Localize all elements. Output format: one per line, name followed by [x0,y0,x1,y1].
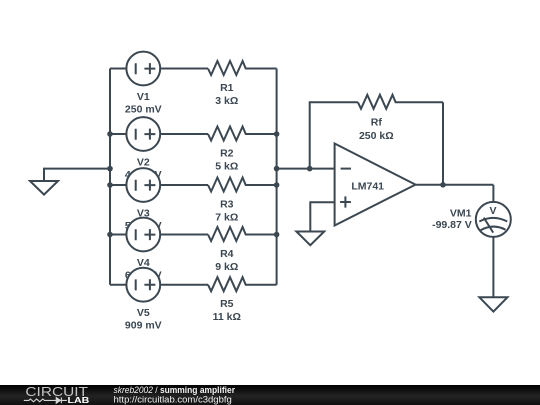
svg-text:http://circuitlab.com/c3dgbfg: http://circuitlab.com/c3dgbfg [114,395,232,405]
svg-text:7 kΩ: 7 kΩ [215,212,238,224]
resistor R1 [208,61,277,107]
resistor R4 [208,227,277,273]
voltage source V3 [110,168,208,232]
node: right bus / R3 junction [274,182,280,188]
svg-text:V5: V5 [137,307,150,319]
svg-text:-99.87 V: -99.87 V [432,219,472,231]
node: right bus / inverting-input tap [274,166,280,172]
node: left bus / V3 junction [107,182,113,188]
svg-text:R3: R3 [220,199,234,211]
svg-text:V2: V2 [137,157,150,169]
ground (left, GND) [30,181,58,195]
voltmeter VM1 [432,202,511,237]
voltage source V1 [110,52,208,116]
footer bar [0,385,540,405]
wire: ground stub from left bus [44,169,110,181]
wire: non-inverting input to ground [310,202,334,231]
svg-text:3 kΩ: 3 kΩ [215,95,238,107]
node: output / feedback junction [440,182,446,188]
svg-text:9 kΩ: 9 kΩ [215,261,238,273]
node: left bus / V2 junction [107,131,113,137]
wire: voltmeter top lead [492,185,494,202]
node: left bus / V4 junction [107,232,113,238]
node: right bus / R2 junction [274,131,280,137]
wire: feedback left riser [310,102,358,168]
svg-text:R2: R2 [220,148,234,160]
voltage source V2 [110,117,208,181]
resistor R5 [208,277,277,323]
wire: right bus [276,69,278,285]
svg-text:LAB: LAB [68,395,90,405]
resistor R2 [208,127,277,173]
svg-text:250 kΩ: 250 kΩ [359,130,394,142]
resistor Rf [358,95,443,142]
wire: op-amp output [416,184,494,186]
op-amp U1 LM741 [335,144,416,226]
voltage source V5 [110,268,208,332]
svg-text:V: V [489,205,496,217]
ground (op-amp + input) [296,232,324,246]
node: right bus / R4 junction [274,232,280,238]
voltage source V4 [110,218,208,282]
svg-text:250 mV: 250 mV [125,104,162,116]
wire: feedback right riser to output [442,102,444,185]
svg-text:909 mV: 909 mV [125,320,162,332]
resistor R3 [208,178,277,224]
ground (voltmeter) [479,297,507,311]
logo: resistor-diode squiggle [24,398,67,404]
svg-text:R4: R4 [220,248,234,260]
svg-text:11 kΩ: 11 kΩ [213,311,241,323]
svg-text:5 kΩ: 5 kΩ [215,161,238,173]
wire: voltmeter bottom lead [492,237,494,297]
svg-text:LM741: LM741 [351,181,384,193]
svg-text:V1: V1 [137,91,150,103]
svg-text:Rf: Rf [371,117,383,129]
node: left bus / ground junction [107,166,113,172]
svg-text:R5: R5 [220,298,234,310]
svg-text:R1: R1 [220,82,234,94]
wire: inverting input from right bus to op-amp [277,168,335,170]
wire: left bus [109,69,111,285]
svg-text:skreb2002 / summing amplifier: skreb2002 / summing amplifier [114,385,236,395]
node: inverting input / feedback junction [307,166,313,172]
svg-text:VM1: VM1 [450,207,472,219]
